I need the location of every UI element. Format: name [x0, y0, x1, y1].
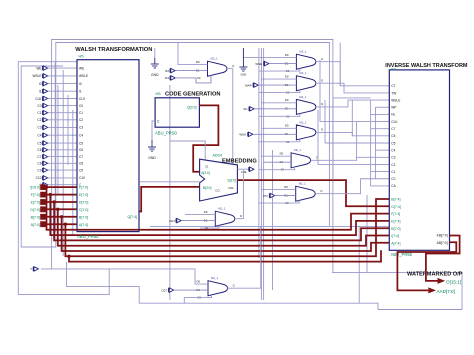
mux M6	[284, 182, 323, 206]
svg-text:Q[3:0]: Q[3:0]	[187, 105, 197, 109]
wire CI from channel	[170, 141, 205, 163]
svg-text:M2_1: M2_1	[211, 276, 218, 280]
svg-text:D0: D0	[285, 53, 289, 57]
input pin WSE	[255, 61, 296, 65]
wire mux M1 S0	[259, 68, 300, 71]
wire channel vertical v5	[339, 43, 341, 86]
wire stub to inverse pin 9	[371, 142, 390, 144]
wire mux M4 output	[316, 132, 389, 135]
input pin I04	[165, 76, 196, 80]
svg-text:GND: GND	[241, 73, 247, 77]
wire mux M6 D0	[261, 189, 295, 191]
svg-text:D[7:0]: D[7:0]	[30, 208, 40, 212]
input pin CLK	[35, 96, 77, 101]
wire middle channel vertical 2	[260, 48, 262, 300]
svg-text:M2_1: M2_1	[211, 57, 218, 61]
svg-text:WSLE: WSLE	[391, 98, 400, 102]
wire channel horizontal h2	[320, 121, 376, 123]
output arrow O[15:1]	[438, 278, 446, 284]
svg-text:C9: C9	[79, 168, 83, 172]
input pin I1	[39, 89, 77, 94]
svg-text:C0: C0	[79, 104, 83, 108]
svg-text:CLK: CLK	[35, 97, 42, 101]
wire left column vertical e	[72, 110, 74, 236]
svg-text:I0: I0	[79, 82, 82, 86]
ground GND2	[148, 140, 156, 160]
wire left column vertical a	[54, 62, 56, 232]
svg-text:M2_1: M2_1	[299, 71, 306, 75]
wire mux M8 D0	[41, 269, 208, 284]
wire stub to inverse pin 5	[371, 113, 390, 115]
bus wire F[7:0] to inverse block	[50, 195, 389, 236]
svg-text:ADD4: ADD4	[213, 154, 223, 158]
block U1 WALSH rect	[77, 60, 139, 232]
input pin C07	[161, 288, 208, 292]
svg-text:C3: C3	[37, 126, 41, 130]
svg-text:C1: C1	[391, 170, 395, 174]
svg-text:C6: C6	[37, 148, 41, 152]
wire channel horizontal h4	[318, 163, 376, 165]
input pin WSA	[239, 132, 296, 136]
wire mux M4 D0	[261, 127, 296, 129]
wire CO to buffer	[237, 168, 248, 170]
svg-text:C3: C3	[391, 156, 395, 160]
svg-text:ABU_PRS0: ABU_PRS0	[155, 131, 178, 136]
wire top feedback net 2	[21, 43, 329, 248]
input pin C8	[37, 161, 77, 166]
svg-text:M2_1: M2_1	[218, 207, 225, 211]
svg-text:D0: D0	[196, 60, 200, 64]
wire vertical below inverse block 1	[358, 226, 360, 303]
svg-text:WP: WP	[391, 106, 396, 110]
svg-text:WALSH TRANSFORMATION: WALSH TRANSFORMATION	[75, 47, 152, 53]
wire mux M4 S0	[259, 139, 300, 142]
wire channel horizontal h3	[325, 142, 371, 144]
svg-text:M2_1: M2_1	[299, 120, 306, 124]
mux M0 (top)	[196, 57, 235, 81]
svg-text:G[7:4]: G[7:4]	[391, 205, 401, 209]
input bus pin F[7:0]	[31, 192, 77, 197]
svg-text:CO: CO	[215, 189, 220, 193]
bus wire A[7:0] to inverse block	[65, 199, 389, 256]
wire channel vertical v9	[317, 110, 319, 164]
bus wire extra lower row	[67, 250, 381, 261]
wire mux M5 S0	[259, 167, 295, 170]
wire channel vertical v4	[356, 122, 358, 158]
wire bottom-left loop 1	[18, 62, 109, 295]
svg-text:I0: I0	[39, 82, 42, 86]
wire mux M6 output	[315, 179, 389, 194]
mux M8	[197, 276, 236, 300]
svg-text:M2_1: M2_1	[299, 182, 306, 186]
wire mux M6 S0	[259, 200, 299, 203]
svg-text:B[3:0]: B[3:0]	[203, 186, 212, 190]
input pin C9	[37, 168, 77, 173]
mux M7	[204, 207, 243, 231]
input pin WE	[36, 66, 77, 71]
wire mux M5 D0	[261, 155, 291, 157]
svg-text:ABU_PR50: ABU_PR50	[77, 234, 99, 239]
wire stub to inverse pin 12	[376, 163, 390, 165]
svg-text:WSLE: WSLE	[32, 74, 41, 78]
svg-text:WATERMARKED O/P: WATERMARKED O/P	[407, 271, 463, 277]
svg-text:WSA: WSA	[239, 133, 246, 137]
wire mux M7 output	[235, 170, 244, 219]
svg-text:F[7:4]: F[7:4]	[391, 212, 400, 216]
wire horizontal y181.8	[140, 181, 200, 183]
svg-text:CODE GENERATION: CODE GENERATION	[165, 91, 221, 97]
svg-text:C7: C7	[37, 155, 41, 159]
input pin T (far left)	[30, 267, 38, 272]
mux M3	[285, 95, 324, 119]
svg-text:F[7:0]: F[7:0]	[79, 186, 88, 190]
input pin C2	[37, 118, 77, 123]
input pin I0	[39, 81, 77, 86]
wire mux M1 output	[316, 62, 389, 86]
svg-text:C5: C5	[391, 141, 395, 145]
svg-text:C2: C2	[37, 118, 41, 122]
svg-text:F[7:0]: F[7:0]	[31, 193, 40, 197]
svg-text:C07: C07	[161, 288, 167, 292]
svg-text:WSLE: WSLE	[79, 74, 88, 78]
svg-text:T: T	[30, 267, 32, 271]
svg-text:C8: C8	[37, 162, 41, 166]
svg-text:ABU_PR55: ABU_PR55	[391, 252, 413, 257]
svg-text:S0: S0	[197, 76, 201, 80]
svg-text:D0: D0	[280, 151, 284, 155]
svg-text:E[7:4]: E[7:4]	[391, 220, 400, 224]
input bus pin E[7:0]	[31, 199, 77, 204]
svg-text:C5: C5	[37, 141, 41, 145]
svg-text:B[7:0]: B[7:0]	[79, 215, 88, 219]
input pin MAP	[245, 83, 296, 87]
svg-text:NL: NL	[391, 113, 395, 117]
svg-text:CI: CI	[205, 164, 208, 168]
input bus pin A[7:0]	[31, 222, 77, 227]
svg-text:C2: C2	[391, 163, 395, 167]
wire code gen C input to gnd	[152, 121, 155, 140]
svg-text:E[7:0]: E[7:0]	[79, 193, 88, 197]
svg-text:GND: GND	[151, 73, 159, 77]
svg-text:C7: C7	[391, 127, 395, 131]
svg-text:D[7:0]: D[7:0]	[79, 201, 88, 205]
wire middle channel vertical 3	[263, 48, 265, 300]
svg-text:Q[7:4]: Q[7:4]	[127, 215, 137, 219]
wire channel vertical v8	[324, 100, 326, 143]
mux M2	[285, 71, 324, 95]
wire mux M1 D0 extension	[243, 57, 261, 59]
svg-text:D0: D0	[204, 210, 208, 214]
svg-text:WSE: WSE	[255, 62, 262, 66]
svg-text:C1: C1	[37, 111, 41, 115]
svg-text:I[15:0]: I[15:0]	[30, 186, 40, 190]
junction dots (cyan)	[54, 75, 73, 171]
input pin C3	[37, 125, 77, 130]
wire mux M2 D0	[261, 78, 296, 80]
svg-text:MAP: MAP	[245, 83, 252, 87]
wire left column vertical d	[67, 95, 69, 165]
wire vertical at x169.9	[169, 85, 171, 300]
svg-text:C2: C2	[79, 118, 83, 122]
svg-text:D0: D0	[285, 74, 289, 78]
svg-text:C7: C7	[79, 155, 83, 159]
svg-text:C4: C4	[391, 148, 395, 152]
svg-text:S[3:0]: S[3:0]	[227, 178, 236, 182]
svg-text:AB[7:0]: AB[7:0]	[437, 241, 448, 245]
svg-text:M2_1: M2_1	[299, 95, 306, 99]
mux M1	[285, 50, 324, 74]
svg-text:I16: I16	[165, 69, 170, 73]
ground GND3	[239, 48, 247, 77]
svg-text:GND: GND	[148, 156, 156, 160]
block U4 INVERSE WALSH rect	[389, 70, 449, 250]
wire channel vertical v7	[319, 60, 321, 122]
wire mux M3 S0	[259, 114, 300, 117]
input pin C7	[37, 154, 77, 159]
wire horizontal y226.4	[150, 225, 389, 227]
input pin C6	[37, 148, 77, 153]
mux M4	[285, 120, 324, 144]
svg-text:I1: I1	[79, 90, 82, 94]
wire stub to inverse pin 15	[371, 185, 390, 187]
wire top mux output	[227, 69, 233, 183]
wire mux D1 feed	[264, 161, 292, 163]
svg-text:CE7: CE7	[169, 219, 175, 223]
wire gnd1 up	[154, 48, 156, 58]
wire stub to inverse pin 13	[371, 171, 390, 173]
svg-text:B[7:0]: B[7:0]	[31, 215, 40, 219]
output buffer CO	[249, 167, 254, 171]
svg-text:I04: I04	[165, 76, 170, 80]
svg-text:O[15:1]: O[15:1]	[446, 279, 461, 284]
mux M5	[280, 148, 319, 172]
wire channel horizontal h1	[333, 97, 371, 99]
wire stub to inverse pin 10	[376, 149, 390, 151]
wire mux M8 S0	[184, 295, 211, 303]
wire mux M1 D0	[261, 57, 296, 59]
bus wire I[15:0] to inverse block	[47, 187, 390, 230]
wire mux M8 output	[228, 226, 261, 288]
wire left column vertical c	[62, 70, 64, 256]
svg-text:KB[7:4]: KB[7:4]	[437, 234, 448, 238]
wire channel vertical v2	[375, 107, 377, 179]
wire top feedback net 1	[52, 40, 333, 273]
svg-text:CT: CT	[391, 84, 395, 88]
input pin SC	[243, 107, 296, 111]
wire mux M7 D0	[185, 214, 215, 216]
svg-text:I1: I1	[39, 90, 42, 94]
svg-text:OFL: OFL	[228, 186, 234, 190]
wire channel vertical v1	[370, 100, 372, 186]
svg-text:D0: D0	[285, 124, 289, 128]
wire middle channel vertical 4	[272, 150, 274, 290]
svg-text:A[7:0]: A[7:0]	[79, 223, 88, 227]
wire left column vertical b	[57, 85, 59, 195]
svg-text:E[7:0]: E[7:0]	[31, 201, 40, 205]
bus wire walsh Q to embedding B	[139, 187, 200, 212]
input bus pin I[15:0]	[30, 185, 77, 190]
wire mux M5 output	[311, 157, 390, 160]
wire mux M3 D0	[261, 102, 296, 104]
bus wire output AAD[7:0]	[397, 242, 456, 290]
svg-text:C4: C4	[37, 134, 41, 138]
svg-text:H5: H5	[156, 91, 162, 96]
svg-text:H5: H5	[79, 54, 85, 59]
wire vertical below inverse block 2	[366, 195, 368, 273]
input pin C5	[37, 141, 77, 146]
wire mux M2 output	[316, 83, 389, 93]
wire bottom-left loop 2	[67, 262, 463, 310]
wire mux M2 S0	[259, 90, 300, 93]
svg-text:A[3:0]: A[3:0]	[201, 171, 210, 175]
svg-text:C10: C10	[36, 176, 42, 180]
wire mux M3 output	[316, 100, 389, 107]
wire channel vertical v3	[351, 100, 353, 136]
svg-text:C0: C0	[37, 104, 41, 108]
wire stub to inverse pin 4	[376, 106, 390, 108]
svg-text:C3: C3	[79, 126, 83, 130]
svg-text:CLK: CLK	[79, 97, 86, 101]
svg-text:I7O: I7O	[263, 194, 269, 198]
bus wire code gen Q to embedding A	[193, 105, 218, 171]
input pin C1	[37, 111, 77, 116]
svg-text:C0: C0	[391, 177, 395, 181]
svg-text:C5: C5	[79, 141, 83, 145]
input pin I16	[165, 68, 208, 72]
svg-text:WE: WE	[36, 66, 41, 70]
svg-text:C[7:0]: C[7:0]	[79, 208, 88, 212]
wire mux M7 S0	[200, 225, 219, 228]
ground GND1	[151, 58, 159, 77]
input pin CE7	[169, 218, 215, 222]
svg-text:I[7:4]: I[7:4]	[391, 234, 399, 238]
input pin C0	[37, 103, 77, 108]
svg-text:D0: D0	[285, 98, 289, 102]
adder U3 ADD4 symbol	[200, 159, 238, 201]
input pin C4	[37, 133, 77, 138]
input bus pin B[7:0]	[31, 214, 77, 219]
bus wire embedding S out to inverse block	[237, 180, 389, 206]
svg-text:D0: D0	[197, 279, 201, 283]
svg-text:TW: TW	[391, 91, 396, 95]
svg-text:INVERSE WALSH TRANSFORM: INVERSE WALSH TRANSFORM	[385, 63, 468, 69]
input pin I7O	[263, 193, 296, 197]
svg-text:C9: C9	[37, 168, 41, 172]
svg-text:B[7:4]: B[7:4]	[391, 198, 400, 202]
wire middle channel vertical 1	[258, 48, 260, 258]
wire stub to inverse pin 6	[376, 121, 390, 123]
svg-text:C8: C8	[79, 162, 83, 166]
bus wire output O[15:1]	[426, 236, 460, 281]
input bus pin D[7:0]	[30, 207, 77, 212]
wire channel vertical v6	[332, 98, 334, 180]
svg-text:C4: C4	[79, 134, 83, 138]
svg-text:M2_1: M2_1	[299, 50, 306, 54]
input pin C (green)	[39, 183, 77, 188]
wire top mux D0	[178, 43, 208, 65]
svg-text:CLK: CLK	[391, 120, 398, 124]
output arrow AAD[7:0]	[428, 287, 436, 293]
input pin WSLE	[32, 74, 77, 79]
svg-text:M2_1: M2_1	[294, 148, 301, 152]
svg-text:C6: C6	[391, 134, 395, 138]
svg-text:AAD[7:0]: AAD[7:0]	[437, 289, 455, 294]
svg-text:D0: D0	[284, 185, 288, 189]
bus wire E[7:0] to inverse block	[54, 202, 389, 240]
svg-text:A[7:0]: A[7:0]	[31, 223, 40, 227]
svg-text:WE: WE	[79, 66, 84, 70]
input pin C10	[36, 176, 77, 181]
svg-text:A[7:4]: A[7:4]	[391, 241, 400, 245]
wire stub to inverse pin 7	[371, 128, 390, 130]
svg-text:C6: C6	[79, 148, 83, 152]
wire top mux S0	[196, 75, 211, 83]
svg-text:C10: C10	[79, 176, 85, 180]
svg-text:C1: C1	[79, 111, 83, 115]
block U2 CODE GENERATION rect	[155, 98, 199, 127]
bus wire B[7:0] to inverse block	[62, 217, 390, 251]
bus wire D[7:0] to inverse block	[58, 209, 390, 245]
svg-text:B[7:0]: B[7:0]	[391, 227, 400, 231]
svg-text:H7: H7	[391, 67, 397, 72]
